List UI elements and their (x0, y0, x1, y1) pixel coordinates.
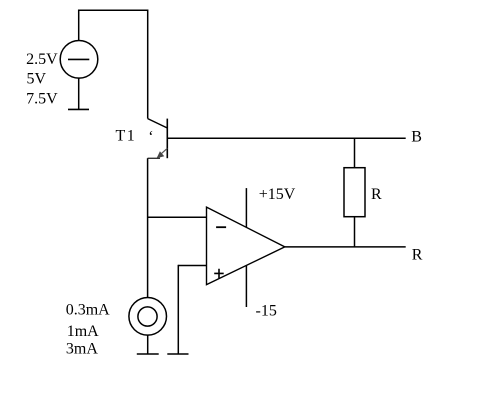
op-amp minus symbol (216, 226, 226, 228)
ground under noninverting input (167, 353, 188, 355)
svg-text:7.5V: 7.5V (26, 90, 58, 107)
wire resistor bottom (354, 217, 356, 247)
svg-text:1mA: 1mA (67, 323, 99, 340)
svg-text:‘: ‘ (148, 129, 153, 146)
transistor T1 emitter arrowhead (157, 151, 165, 158)
svg-text:B: B (411, 128, 422, 145)
svg-text:T1: T1 (116, 128, 137, 145)
wire noninverting input (178, 265, 206, 267)
wire current source bottom (147, 335, 149, 354)
wire -15 supply (245, 265, 247, 307)
svg-text:R: R (371, 186, 382, 203)
svg-text:-15: -15 (256, 303, 277, 320)
transistor T1 emitter diagonal (158, 148, 167, 156)
op-amp U1 triangle (207, 207, 285, 285)
wire source bottom (78, 78, 80, 109)
svg-text:0.3mA: 0.3mA (66, 302, 110, 319)
wire collector drop (147, 10, 149, 119)
wire left drop to source (78, 10, 80, 41)
svg-text:+15V: +15V (259, 186, 296, 203)
wire emitter vertical (147, 158, 149, 297)
svg-text:R: R (412, 247, 423, 264)
wire base lead to B (167, 137, 405, 139)
transistor T1 base bar (166, 119, 168, 159)
voltage source V1 circle (60, 41, 98, 79)
svg-text:5V: 5V (27, 71, 47, 88)
svg-text:3mA: 3mA (66, 341, 98, 358)
ground under current source (137, 353, 159, 355)
resistor R body (344, 168, 365, 217)
ground under source (68, 108, 89, 110)
wire +15V supply (245, 188, 247, 227)
wire resistor top (354, 138, 356, 168)
wire noninverting down to ground (177, 265, 179, 354)
transistor T1 emitter foot wire (148, 157, 160, 159)
current source I1 outer circle (129, 298, 167, 336)
svg-text:2.5V: 2.5V (26, 51, 58, 68)
current source I1 inner circle (138, 307, 157, 326)
transistor Q T1 collector diagonal (148, 119, 168, 128)
wire junction to inverting input (148, 216, 207, 218)
wire op-amp output (285, 246, 406, 248)
wire top horizontal (79, 9, 148, 11)
op-amp plus symbol (214, 269, 224, 279)
voltage source V1 dash (68, 58, 89, 60)
